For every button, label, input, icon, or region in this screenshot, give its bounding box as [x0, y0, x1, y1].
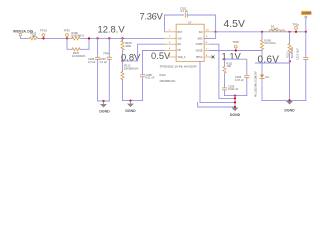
- junction dot TP2a: [295, 31, 297, 33]
- inductor L2: [269, 24, 285, 32]
- wire cap C207 lower: [108, 59, 110, 101]
- junction dot SW rail: [215, 31, 217, 33]
- svg-text:EN: EN: [178, 43, 182, 46]
- svg-text:10.0/2W1%: 10.0/2W1%: [71, 34, 85, 38]
- wire HVDD5 down to rail: [305, 18, 307, 32]
- svg-text:20K/380K/1%: 20K/380K/1%: [160, 79, 177, 83]
- junction dot rail x123.6: [121, 37, 123, 39]
- wire C208 to ground U: [142, 77, 144, 101]
- junction dot COMP node: [223, 58, 225, 60]
- svg-text:0.47 uF: 0.47 uF: [235, 78, 244, 82]
- pin 5 VDD stub: [168, 55, 186, 59]
- svg-text:20K/380K/1%: 20K/380K/1%: [124, 67, 139, 70]
- test point TP2a: [293, 22, 300, 31]
- svg-text:C210 10uF: C210 10uF: [297, 48, 300, 60]
- wire BOOT loop left: [165, 15, 184, 32]
- junction dot ground mid: [129, 100, 131, 102]
- pin 3 EN stub: [165, 42, 182, 46]
- wire R109 to FB node: [261, 50, 263, 63]
- test point TP2x: [233, 40, 240, 50]
- junction dot rail x306: [305, 31, 307, 33]
- svg-text:4.5V: 4.5V: [224, 19, 245, 30]
- wire FB node to LED: [261, 63, 263, 74]
- svg-text:TP2a: TP2a: [293, 22, 300, 26]
- capacitor C204: [235, 75, 249, 82]
- svg-text:TP26: TP26: [233, 40, 240, 44]
- svg-text:HVDD5: HVDD5: [302, 11, 312, 15]
- junction dot rail x89: [88, 37, 90, 39]
- resistor R109: [260, 39, 275, 50]
- svg-text:TP9: TP9: [103, 52, 109, 56]
- svg-text:FB: FB: [178, 49, 181, 52]
- test point TP3-0: [40, 28, 48, 38]
- wire node to EN pin: [123, 44, 165, 61]
- svg-text:D1: D1: [266, 75, 270, 79]
- wire COMP node down: [224, 59, 226, 66]
- svg-text:1R0: 1R0: [32, 35, 37, 38]
- wire output rail: [216, 31, 306, 33]
- wire cap C206 upper: [97, 38, 99, 57]
- wire LED to ground U: [261, 78, 263, 100]
- wire FB pin to C208: [143, 51, 165, 75]
- wire BOOT loop right: [187, 15, 215, 32]
- svg-text:7.36V: 7.36V: [140, 11, 164, 22]
- resistor R106 on rail: [71, 31, 85, 40]
- svg-text:10.0/2W1%: 10.0/2W1%: [72, 54, 86, 58]
- wire port down to rail: [20, 36, 28, 39]
- svg-text:SW2: SW2: [198, 38, 204, 40]
- resistor R111 comp: [223, 61, 233, 73]
- pin 8 COMP stub: [196, 42, 210, 46]
- wire C210 to ground U: [305, 60, 307, 101]
- no-connect X pin 6: [212, 56, 214, 58]
- net label HVDD5: [301, 11, 312, 15]
- resistor R110: [288, 44, 291, 54]
- capacitor C209 comp: [222, 84, 238, 91]
- wire ground U left bottom: [98, 100, 110, 102]
- junction dot ground right: [288, 99, 290, 101]
- junction dot TP33: [66, 37, 68, 39]
- junction dot rail x98: [97, 37, 99, 39]
- svg-text:DGND: DGND: [99, 109, 110, 113]
- wire IC bottom stub down: [200, 62, 235, 103]
- junction dot FB node right: [289, 60, 291, 62]
- wire rail to R110: [289, 32, 291, 44]
- wire C209 to ground bus: [225, 90, 247, 96]
- junction dot TP26: [235, 49, 237, 51]
- test point TP33: [64, 28, 71, 38]
- wire rail segment B: [82, 37, 165, 39]
- svg-text:DGND: DGND: [230, 113, 241, 117]
- resistor R112: [121, 64, 139, 80]
- wire pin8 down to ground bus: [210, 44, 235, 98]
- svg-text:U7: U7: [188, 20, 192, 24]
- wire R112 to ground U: [122, 80, 124, 101]
- svg-text:DGND: DGND: [284, 108, 295, 112]
- pin 2 VIN stub: [165, 36, 182, 40]
- resistor R107 parallel: [72, 48, 86, 58]
- junction dot ground column 2: [234, 97, 236, 99]
- svg-text:BST: BST: [178, 31, 183, 34]
- capacitor C208: [140, 73, 154, 80]
- svg-text:0.6V: 0.6V: [258, 54, 280, 65]
- svg-text:VDD_A: VDD_A: [178, 56, 186, 59]
- parallel resistor loop left wire: [67, 38, 72, 49]
- junction dot rail x289.5: [288, 31, 290, 33]
- wire rail segment A: [39, 37, 73, 39]
- svg-text:10K: 10K: [227, 64, 232, 68]
- junction dot ground left: [102, 100, 104, 102]
- wire COMP node right: [225, 59, 247, 74]
- wire ground U right bottom: [262, 99, 306, 101]
- svg-text:12.8.V: 12.8.V: [98, 24, 126, 35]
- diode D1: [260, 75, 270, 79]
- wire FB node down to ground: [289, 63, 291, 100]
- capacitor C210: [304, 58, 308, 60]
- svg-text:0.022 uF: 0.022 uF: [228, 87, 239, 91]
- svg-text:2.2 uF: 2.2 uF: [100, 60, 108, 64]
- junction dot rail x262: [261, 31, 263, 33]
- ground DGND center: [230, 108, 241, 117]
- junction dot rail x110.8: [108, 37, 110, 39]
- svg-text:2.2 uF: 2.2 uF: [88, 60, 96, 64]
- svg-text:100K: 100K: [125, 44, 131, 48]
- svg-text:R113: R113: [160, 73, 167, 77]
- junction dot TP3-0: [42, 37, 44, 39]
- pin 10 SW stub: [199, 30, 216, 34]
- wire R111 to C209: [224, 73, 226, 88]
- resistor R108: [121, 41, 132, 51]
- wire cap C207 upper: [108, 38, 110, 57]
- svg-text:DGND: DGND: [125, 109, 136, 113]
- svg-text:NHSG: NHSG: [196, 57, 203, 59]
- junction dot ground column 3: [234, 101, 236, 103]
- resistor R105: [28, 31, 39, 40]
- parallel resistor loop right wire: [80, 38, 89, 49]
- svg-text:63.4 Ohm: 63.4 Ohm: [265, 41, 276, 45]
- wire cap C206 lower: [97, 59, 99, 101]
- svg-text:WIDE3A: WIDE3A: [13, 29, 26, 33]
- junction dot ground column 4: [234, 106, 236, 108]
- junction dot node 0.8V: [121, 60, 123, 62]
- net label WIDE3A_DIG: [13, 29, 34, 33]
- svg-text:HV_LED/SML-D12M1WT: HV_LED/SML-D12M1WT: [256, 70, 258, 97]
- junction dot ground bus top: [234, 95, 236, 97]
- pin 9 GND stub: [198, 36, 210, 40]
- svg-text:COMP: COMP: [196, 44, 203, 46]
- wire node to R112: [122, 61, 124, 72]
- wire ground U mid bottom: [123, 100, 143, 102]
- capacitor C202 boot: [180, 7, 188, 18]
- svg-text:TP3-0: TP3-0: [40, 28, 48, 32]
- port symbol WIDE3A_DIG: [19, 33, 21, 35]
- svg-text:TPS54202 10-Pin HVSSOP: TPS54202 10-Pin HVSSOP: [160, 65, 197, 69]
- pin 7 VD_SE stub: [196, 48, 210, 52]
- wire to R108: [122, 38, 124, 41]
- wire R110 to FB node: [289, 53, 291, 63]
- ground DGND mid: [125, 101, 136, 113]
- pin 4 FB stub: [165, 48, 181, 52]
- wire FB node horizontal: [256, 62, 290, 64]
- wire C204 to ground bus: [246, 78, 248, 96]
- svg-text:VD/SE: VD/SE: [196, 51, 203, 53]
- pin 6 NHSG stub: [196, 55, 213, 59]
- svg-text:0.01 uF: 0.01 uF: [146, 76, 155, 80]
- pin 1 BST stub: [165, 30, 183, 34]
- wire ground column: [234, 96, 236, 107]
- ground DGND left: [99, 101, 110, 113]
- wire pin7 to divider: [210, 50, 262, 52]
- svg-text:R110: R110: [286, 52, 289, 58]
- capacitor C207: [100, 57, 112, 64]
- ground DGND right: [284, 101, 295, 112]
- wire rail to C210: [305, 32, 307, 57]
- capacitor C206: [88, 57, 100, 64]
- wire pin9 GND down: [204, 32, 215, 39]
- wire ground lower jog: [198, 102, 235, 107]
- op-amp U7 regulator box: [176, 24, 204, 61]
- port symbol HVDD5: [305, 16, 307, 18]
- wire rail to R109: [261, 32, 263, 40]
- svg-text:VIN: VIN: [178, 37, 182, 40]
- wire R108 to node: [122, 50, 124, 61]
- svg-text:TP33: TP33: [64, 28, 71, 32]
